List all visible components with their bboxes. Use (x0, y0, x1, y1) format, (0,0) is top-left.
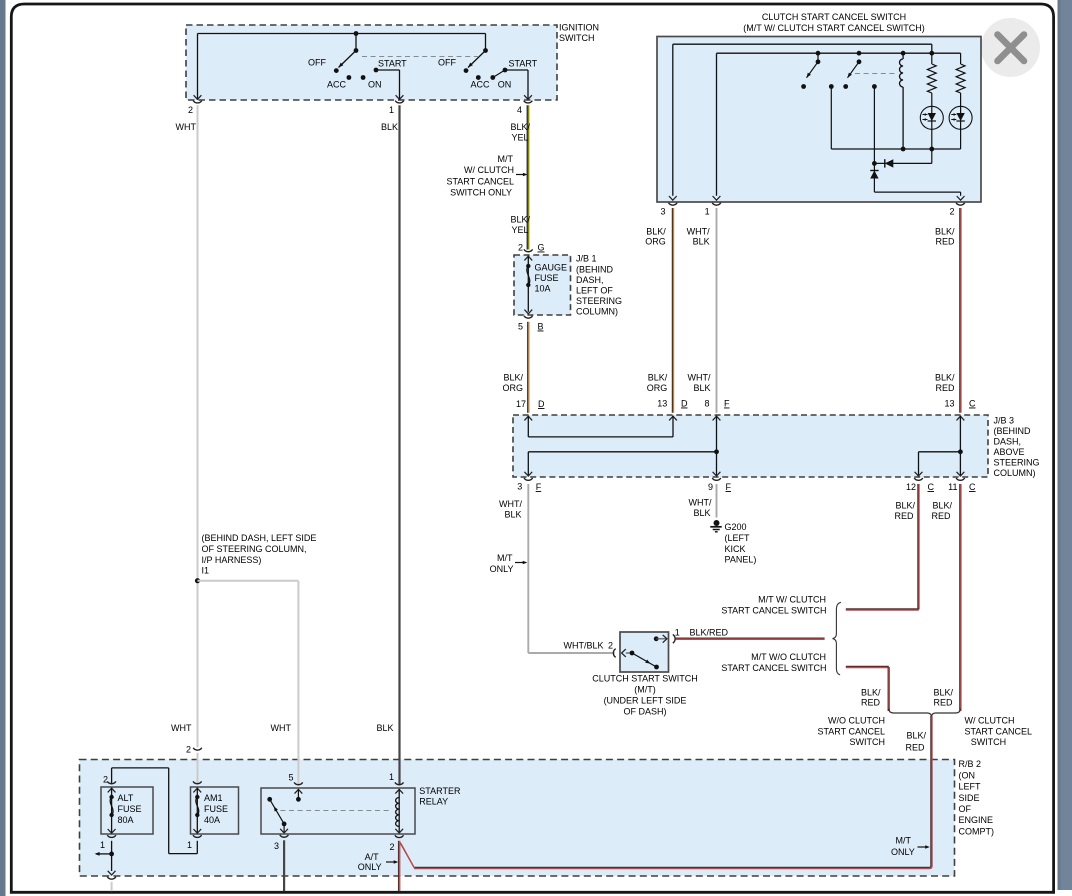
svg-text:RED: RED (931, 511, 951, 521)
svg-text:ON: ON (498, 80, 512, 90)
svg-text:ONLY: ONLY (891, 847, 915, 857)
svg-text:GAUGE: GAUGE (535, 263, 568, 273)
svg-text:BLK: BLK (381, 122, 398, 132)
svg-text:WHT/: WHT/ (687, 226, 710, 236)
svg-text:WHT/: WHT/ (499, 499, 522, 509)
svg-text:YEL: YEL (511, 225, 528, 235)
svg-text:STARTER: STARTER (419, 786, 461, 796)
svg-text:1: 1 (675, 628, 680, 638)
svg-text:FUSE: FUSE (118, 804, 142, 814)
svg-text:BLK/: BLK/ (648, 373, 668, 383)
svg-text:STEERING: STEERING (994, 458, 1040, 468)
svg-text:ORG: ORG (647, 383, 668, 393)
svg-text:WHT/: WHT/ (688, 373, 711, 383)
svg-text:(BEHIND: (BEHIND (994, 426, 1032, 436)
svg-text:BLK/: BLK/ (935, 373, 955, 383)
svg-text:M/T W/ CLUTCH: M/T W/ CLUTCH (758, 594, 826, 604)
svg-text:DASH,: DASH, (994, 437, 1022, 447)
svg-text:RED: RED (905, 743, 925, 753)
svg-text:OF: OF (959, 804, 972, 814)
svg-text:COLUMN): COLUMN) (576, 307, 618, 317)
svg-text:BLK/: BLK/ (895, 501, 915, 511)
svg-text:CLUTCH START CANCEL SWITCH: CLUTCH START CANCEL SWITCH (762, 12, 906, 22)
svg-text:F: F (536, 482, 542, 492)
svg-text:13: 13 (657, 399, 667, 409)
svg-text:COMPT): COMPT) (959, 826, 995, 836)
svg-text:LEFT: LEFT (959, 782, 982, 792)
svg-text:BLK: BLK (376, 723, 393, 733)
svg-text:J/B 3: J/B 3 (994, 416, 1015, 426)
svg-text:ORG: ORG (502, 383, 523, 393)
svg-text:(LEFT: (LEFT (725, 533, 751, 543)
svg-text:1: 1 (187, 840, 192, 850)
svg-text:WHT: WHT (271, 723, 292, 733)
svg-text:ACC: ACC (327, 80, 347, 90)
svg-text:BLK/: BLK/ (906, 731, 926, 741)
svg-text:12: 12 (906, 482, 916, 492)
svg-text:F: F (724, 399, 730, 409)
svg-text:10A: 10A (535, 284, 551, 294)
svg-text:RED: RED (894, 511, 914, 521)
svg-text:W/ CLUTCH: W/ CLUTCH (965, 716, 1015, 726)
svg-text:START: START (378, 59, 407, 69)
svg-text:YEL: YEL (511, 133, 528, 143)
svg-text:(ON: (ON (959, 770, 976, 780)
svg-text:ONLY: ONLY (490, 564, 514, 574)
svg-text:OFF: OFF (438, 58, 456, 68)
svg-text:1: 1 (389, 772, 394, 782)
svg-text:DASH,: DASH, (576, 275, 604, 285)
svg-text:RED: RED (933, 698, 953, 708)
svg-text:START CANCEL: START CANCEL (817, 727, 885, 737)
svg-text:13: 13 (944, 399, 954, 409)
svg-text:BLK/: BLK/ (932, 501, 952, 511)
svg-text:ABOVE: ABOVE (994, 447, 1025, 457)
svg-text:4: 4 (517, 105, 522, 115)
svg-text:BLK/: BLK/ (861, 688, 881, 698)
svg-text:1: 1 (705, 207, 710, 217)
svg-text:START CANCEL SWITCH: START CANCEL SWITCH (721, 663, 826, 673)
svg-text:2: 2 (188, 105, 193, 115)
svg-text:1: 1 (389, 105, 394, 115)
svg-text:AM1: AM1 (204, 793, 223, 803)
svg-text:(BEHIND: (BEHIND (576, 265, 614, 275)
svg-text:SIDE: SIDE (959, 793, 980, 803)
svg-text:(M/T): (M/T) (634, 685, 656, 695)
svg-text:C: C (969, 399, 976, 409)
svg-text:BLK/: BLK/ (503, 373, 523, 383)
svg-text:D: D (681, 399, 688, 409)
svg-text:M/T: M/T (497, 553, 513, 563)
svg-text:J/B 1: J/B 1 (576, 254, 597, 264)
svg-text:IGNITION: IGNITION (559, 23, 599, 33)
svg-text:BLK/: BLK/ (510, 122, 530, 132)
svg-text:G200: G200 (725, 522, 747, 532)
svg-text:SWITCH: SWITCH (559, 33, 595, 43)
svg-text:5: 5 (518, 322, 523, 332)
svg-text:80A: 80A (118, 815, 134, 825)
svg-text:OF DASH): OF DASH) (623, 707, 666, 717)
svg-text:START CANCEL: START CANCEL (446, 177, 514, 187)
svg-text:I1: I1 (202, 566, 210, 576)
svg-text:W/O CLUTCH: W/O CLUTCH (828, 716, 885, 726)
svg-text:M/T W/O CLUTCH: M/T W/O CLUTCH (751, 652, 826, 662)
svg-text:9: 9 (708, 482, 713, 492)
svg-text:BLK: BLK (693, 508, 710, 518)
svg-text:PANEL): PANEL) (725, 555, 757, 565)
svg-text:3: 3 (517, 482, 522, 492)
svg-text:WHT: WHT (176, 122, 197, 132)
svg-text:BLK: BLK (504, 510, 521, 520)
svg-text:CLUTCH START SWITCH: CLUTCH START SWITCH (592, 674, 698, 684)
svg-text:START CANCEL: START CANCEL (965, 727, 1033, 737)
svg-text:RED: RED (861, 698, 881, 708)
svg-text:OF STEERING COLUMN,: OF STEERING COLUMN, (202, 544, 307, 554)
svg-text:W/ CLUTCH: W/ CLUTCH (464, 165, 514, 175)
svg-text:RED: RED (935, 383, 955, 393)
svg-text:2: 2 (608, 641, 613, 651)
svg-text:8: 8 (704, 399, 709, 409)
svg-text:START: START (509, 59, 538, 69)
svg-text:WHT/: WHT/ (689, 498, 712, 508)
svg-text:KICK: KICK (725, 544, 746, 554)
svg-text:17: 17 (516, 399, 526, 409)
svg-text:M/T: M/T (498, 154, 514, 164)
svg-text:D: D (538, 399, 545, 409)
svg-text:1: 1 (100, 840, 105, 850)
svg-text:11: 11 (948, 482, 957, 492)
svg-text:C: C (969, 482, 976, 492)
svg-text:BLK/: BLK/ (933, 688, 953, 698)
svg-text:40A: 40A (204, 815, 220, 825)
svg-text:A/T: A/T (365, 852, 380, 862)
svg-text:R/B 2: R/B 2 (959, 759, 982, 769)
svg-text:WHT/BLK: WHT/BLK (563, 641, 603, 651)
svg-text:BLK: BLK (693, 383, 710, 393)
svg-text:WHT: WHT (171, 723, 192, 733)
svg-text:(BEHIND DASH, LEFT SIDE: (BEHIND DASH, LEFT SIDE (202, 533, 317, 543)
svg-text:2: 2 (518, 243, 523, 253)
svg-text:ENGINE: ENGINE (959, 815, 994, 825)
svg-text:B: B (538, 322, 544, 332)
svg-text:FUSE: FUSE (535, 273, 559, 283)
svg-text:FUSE: FUSE (204, 804, 228, 814)
svg-text:2: 2 (389, 842, 394, 852)
svg-text:BLK/: BLK/ (935, 226, 955, 236)
svg-text:ON: ON (368, 80, 382, 90)
svg-text:I/P HARNESS): I/P HARNESS) (202, 555, 262, 565)
svg-text:START CANCEL SWITCH: START CANCEL SWITCH (721, 606, 826, 616)
svg-text:2: 2 (949, 207, 954, 217)
svg-text:3: 3 (660, 207, 665, 217)
svg-text:G: G (538, 243, 545, 253)
svg-text:(UNDER LEFT SIDE: (UNDER LEFT SIDE (604, 696, 687, 706)
svg-text:LEFT OF: LEFT OF (576, 286, 613, 296)
svg-text:STEERING: STEERING (576, 296, 622, 306)
svg-text:M/T: M/T (896, 836, 912, 846)
svg-text:SWITCH ONLY: SWITCH ONLY (450, 188, 512, 198)
svg-text:5: 5 (288, 773, 293, 783)
svg-text:RED: RED (935, 237, 955, 247)
svg-text:RELAY: RELAY (419, 797, 448, 807)
svg-text:SWITCH: SWITCH (850, 737, 886, 747)
svg-text:BLK: BLK (693, 237, 710, 247)
svg-text:COLUMN): COLUMN) (994, 468, 1036, 478)
svg-text:ALT: ALT (118, 793, 134, 803)
svg-text:(M/T W/ CLUTCH START CANCEL SW: (M/T W/ CLUTCH START CANCEL SWITCH) (743, 23, 925, 33)
svg-text:C: C (928, 482, 935, 492)
svg-text:ORG: ORG (645, 237, 666, 247)
svg-text:ONLY: ONLY (358, 862, 382, 872)
svg-text:ACC: ACC (471, 80, 491, 90)
svg-text:OFF: OFF (308, 58, 326, 68)
svg-text:3: 3 (274, 841, 279, 851)
svg-text:BLK/: BLK/ (510, 215, 530, 225)
svg-text:2: 2 (103, 775, 108, 785)
svg-text:F: F (726, 482, 732, 492)
svg-text:2: 2 (186, 745, 191, 755)
svg-text:BLK/: BLK/ (646, 226, 666, 236)
svg-text:SWITCH: SWITCH (971, 737, 1007, 747)
svg-text:BLK/RED: BLK/RED (690, 628, 729, 638)
